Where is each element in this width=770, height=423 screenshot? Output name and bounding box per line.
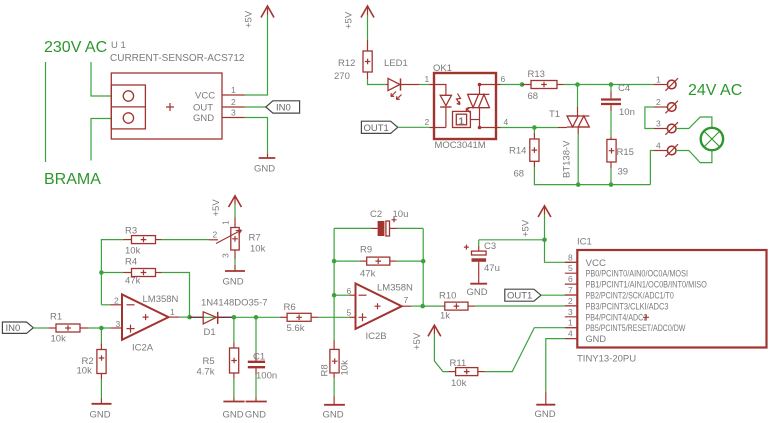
svg-text:47k: 47k (360, 269, 376, 280)
wire feedback to IC2A pin2 (101, 304, 110, 306)
svg-text:1N4148DO35-7: 1N4148DO35-7 (201, 298, 268, 309)
svg-text:3: 3 (656, 119, 661, 129)
op-amp IC2A (114, 294, 179, 354)
svg-text:OUT1: OUT1 (507, 291, 532, 302)
svg-text:1: 1 (568, 318, 573, 328)
terminal pad 1 (654, 75, 678, 91)
net flag OUT1 (bottom) (505, 289, 541, 302)
svg-text:270: 270 (334, 71, 350, 82)
svg-text:GND: GND (90, 410, 111, 421)
svg-text:R13: R13 (528, 69, 545, 80)
ground (R7) (223, 265, 246, 288)
supply +5V symbol (R12) (344, 6, 375, 29)
wire R9 right (397, 260, 423, 262)
optocoupler OK1 (425, 63, 509, 151)
resistor R4 (124, 257, 162, 287)
wire pad4 to lamp (676, 150, 712, 162)
current sensor U1 (111, 73, 222, 139)
resistor R9 (360, 245, 397, 280)
svg-text:R11: R11 (450, 358, 467, 369)
svg-text:R14: R14 (509, 146, 526, 157)
wire 230VAC right to terminal 1 (91, 62, 111, 96)
resistor R13 (522, 69, 564, 102)
svg-text:100n: 100n (256, 371, 277, 382)
resistor R2 (77, 328, 107, 379)
ground (R2) (90, 399, 112, 421)
svg-text:R3: R3 (125, 226, 137, 237)
resistor R1 (48, 312, 88, 345)
svg-text:C1: C1 (253, 352, 265, 363)
svg-text:C3: C3 (484, 241, 496, 252)
lamp (701, 128, 723, 150)
junction (332, 293, 337, 298)
svg-text:2: 2 (231, 97, 236, 107)
U1 pin 3 (222, 117, 245, 119)
wire R13 to pad 1 / top rail (564, 84, 654, 86)
svg-text:1: 1 (425, 74, 430, 84)
resistor R3 (124, 226, 162, 257)
svg-text:GND: GND (254, 164, 275, 175)
wire D1 to C1/R6 (234, 316, 280, 318)
wire C4 to R15 (610, 111, 612, 137)
svg-text:VCC: VCC (195, 91, 215, 102)
ground (C3) (467, 279, 488, 298)
capacitor C4 (601, 83, 635, 118)
wire IN0 to R1 (33, 327, 48, 329)
svg-text:68: 68 (528, 91, 539, 102)
wire OK1 pin6 to R13 (501, 84, 523, 86)
wire R11 to IC1 PB5 (485, 328, 565, 372)
svg-text:4: 4 (656, 141, 661, 151)
svg-text:D1: D1 (204, 327, 216, 338)
junction (576, 182, 581, 187)
svg-text:2: 2 (568, 296, 573, 306)
svg-text:PB3/PCINT3/CLKI/ADC3: PB3/PCINT3/CLKI/ADC3 (586, 301, 669, 312)
svg-text:R6: R6 (284, 302, 296, 313)
wire R15 to bottom rail (610, 168, 612, 185)
svg-text:8: 8 (568, 252, 573, 262)
junction (532, 125, 537, 130)
svg-text:10k: 10k (125, 246, 141, 257)
net flag IN0 (bottom) (2, 322, 33, 334)
svg-text:3: 3 (231, 108, 236, 118)
wire U1 pin2 to IN0 (245, 106, 266, 108)
svg-text:10u: 10u (393, 209, 409, 220)
svg-text:6: 6 (568, 274, 573, 284)
wire output to D1 (190, 316, 234, 318)
wire LED1 to OK1 pin1 (419, 84, 429, 86)
svg-text:PB4/PCINT4/ADC2: PB4/PCINT4/ADC2 (586, 312, 648, 323)
svg-text:IN0: IN0 (6, 323, 21, 334)
svg-text:1k: 1k (440, 310, 450, 321)
svg-text:C2: C2 (370, 209, 382, 220)
resistor R14 (509, 128, 539, 180)
wire R9 left (334, 260, 360, 262)
supply +5V symbol (R11) (412, 325, 441, 350)
svg-text:47u: 47u (484, 263, 500, 274)
terminal pad 3 (654, 119, 678, 135)
svg-text:10k: 10k (77, 366, 93, 377)
resistor R15 (607, 137, 634, 178)
svg-text:4: 4 (504, 117, 509, 127)
wire OUT1 to OK1 pin2 (398, 126, 430, 128)
resistor R5 (197, 317, 239, 378)
wire U1 pin3 to GND (245, 118, 268, 154)
svg-text:IC1: IC1 (577, 237, 592, 248)
wire top rail to triac T1 (577, 85, 579, 108)
svg-text:OUT1: OUT1 (364, 123, 389, 134)
wire 230VAC left to BRAMA (45, 62, 47, 162)
resistor R10 (439, 291, 475, 322)
resistor R6 (280, 302, 318, 334)
microcontroller IC1 (565, 237, 767, 365)
supply +5V symbol (IC1) (521, 206, 551, 237)
IC2B output wire (402, 305, 412, 307)
junction (99, 270, 104, 275)
svg-text:R5: R5 (203, 356, 215, 367)
junction (575, 82, 580, 87)
svg-text:R12: R12 (338, 58, 355, 69)
svg-text:GND: GND (535, 409, 556, 420)
svg-text:24V AC: 24V AC (688, 82, 742, 99)
supply +5V symbol (U1) (244, 6, 275, 28)
junction (421, 259, 426, 264)
svg-text:VCC: VCC (586, 258, 607, 269)
net flag IN0 (top) (266, 101, 300, 114)
svg-text:U 1: U 1 (111, 40, 126, 51)
terminal pad 4 (654, 141, 678, 157)
svg-text:39: 39 (618, 167, 629, 178)
junction (520, 82, 525, 87)
svg-text:5.6k: 5.6k (287, 323, 305, 334)
supply +5V symbol (R7) (211, 196, 241, 217)
svg-text:GND: GND (323, 410, 344, 421)
svg-text:1: 1 (231, 85, 236, 95)
svg-text:6: 6 (501, 74, 506, 84)
wire R2 to GND (100, 379, 102, 399)
op-amp IC2B (347, 283, 414, 343)
svg-text:IC2A: IC2A (132, 343, 154, 354)
wire +5V to R11 (434, 334, 448, 372)
svg-text:PB1/PCINT1/AIN1/OC0B/INT0/MISO: PB1/PCINT1/AIN1/OC0B/INT0/MISO (586, 280, 707, 291)
svg-text:R7: R7 (249, 233, 261, 244)
ground (U1) (254, 153, 275, 174)
svg-text:GND: GND (467, 287, 488, 298)
svg-text:10k: 10k (51, 334, 67, 345)
wire C2 left vertical to pin6/R8 (333, 228, 335, 340)
wire R6 to IC2B pin5 (318, 316, 349, 318)
trimmer R7 (209, 218, 266, 260)
wire IC2B pin6 (334, 294, 349, 296)
svg-text:C4: C4 (618, 83, 630, 94)
svg-text:OK1: OK1 (433, 63, 452, 74)
wire R4 right to output node (162, 273, 190, 317)
svg-text:LM358N: LM358N (143, 294, 179, 305)
wire OK1 pin4 to T1 gate (501, 127, 559, 129)
wire pad3 to lamp (676, 117, 712, 129)
wire terminal 2 to BRAMA (91, 119, 111, 161)
wire R3 left to feedback vertical (101, 240, 123, 305)
svg-text:3: 3 (568, 307, 573, 317)
svg-text:R4: R4 (125, 257, 137, 268)
svg-text:10k: 10k (250, 244, 266, 255)
wire bottom rail up to pad 4 (650, 151, 653, 185)
wire C3 to +5V node (479, 239, 545, 241)
svg-text:5: 5 (347, 308, 352, 318)
ground (R5) (223, 398, 245, 421)
svg-text:PB0/PCINT0/AIN0/OC0A/MOSI: PB0/PCINT0/AIN0/OC0A/MOSI (586, 269, 689, 280)
resistor R12 (334, 40, 372, 82)
wire R1 to IC2A pin3 (88, 327, 110, 329)
wire IC1 GND pin4 (546, 339, 565, 392)
svg-text:GND: GND (245, 410, 266, 421)
svg-text:3: 3 (221, 253, 231, 258)
wire +5V to R12 (367, 15, 369, 40)
svg-text:3: 3 (116, 319, 121, 329)
wire C2 right vertical to output (422, 228, 424, 306)
wire C1 to GND (255, 375, 257, 398)
wire OUT1 to IC1 PB2 (541, 294, 565, 296)
svg-text:+5V: +5V (211, 199, 222, 217)
svg-text:R1: R1 (50, 312, 62, 323)
svg-text:GND: GND (586, 334, 607, 345)
svg-text:4.7k: 4.7k (197, 367, 215, 378)
svg-text:+5V: +5V (521, 219, 532, 237)
svg-text:230V AC: 230V AC (44, 39, 107, 56)
wire R10 to IC1 PB3 (475, 305, 565, 307)
ground (R8) (323, 396, 345, 421)
capacitor C3 (464, 240, 500, 279)
svg-text:2: 2 (425, 117, 430, 127)
svg-text:4: 4 (568, 329, 573, 339)
svg-text:6: 6 (347, 286, 352, 296)
triac T1 (549, 107, 589, 178)
junction (542, 238, 547, 243)
U1 pin 2 (222, 106, 245, 108)
svg-text:+5V: +5V (344, 11, 355, 29)
terminal pad 2 (654, 97, 678, 113)
svg-text:GND: GND (223, 277, 244, 288)
resistor R11 (449, 358, 485, 389)
resistor R8 (320, 340, 351, 379)
capacitor C1 (248, 317, 277, 381)
junction (232, 315, 237, 320)
wire R7 to GND (234, 259, 236, 265)
net flag OUT1 (top) (361, 121, 397, 134)
wire R12 to LED1 (368, 79, 386, 85)
junction (609, 182, 614, 187)
svg-text:2: 2 (213, 230, 218, 240)
svg-text:10k: 10k (451, 378, 467, 389)
U1 pin 1 (222, 94, 245, 96)
svg-text:GND: GND (193, 113, 214, 124)
svg-text:MOC3041M: MOC3041M (435, 140, 486, 151)
wire pad2 to pad3 (645, 107, 654, 129)
svg-text:GND: GND (223, 410, 244, 421)
ground (IC1) (535, 391, 556, 420)
ground (C1) (245, 398, 267, 421)
junction (187, 315, 192, 320)
svg-text:1: 1 (656, 75, 661, 85)
svg-text:1: 1 (221, 220, 231, 225)
svg-text:2: 2 (114, 296, 119, 306)
svg-text:OUT: OUT (193, 103, 213, 114)
svg-text:CURRENT-SENSOR-ACS712: CURRENT-SENSOR-ACS712 (110, 53, 245, 64)
svg-text:5: 5 (568, 263, 573, 273)
junction (420, 304, 425, 309)
svg-text:+5V: +5V (412, 332, 423, 350)
svg-text:2: 2 (656, 97, 661, 107)
wire output to R10 (423, 305, 443, 307)
wire T1 to bottom rail (577, 134, 579, 185)
svg-text:47k: 47k (125, 276, 141, 287)
wire R8 to GND (333, 378, 335, 396)
svg-text:1: 1 (459, 117, 465, 128)
IC2A output wire (169, 316, 180, 318)
wire +5V to IC1 VCC (545, 215, 565, 263)
svg-text:TINY13-20PU: TINY13-20PU (577, 354, 636, 365)
svg-text:BT138-V: BT138-V (562, 140, 573, 178)
svg-text:R9: R9 (360, 245, 372, 256)
pin3 stub (110, 327, 122, 329)
svg-text:BRAMA: BRAMA (44, 171, 101, 188)
junction (609, 82, 614, 87)
junction (254, 315, 259, 320)
junction (99, 326, 104, 331)
diode D1 1N4148DO35-7 (190, 298, 268, 339)
svg-text:T1: T1 (549, 109, 560, 120)
svg-text:PB2/PCINT2/SCK/ADC1/T0: PB2/PCINT2/SCK/ADC1/T0 (586, 291, 674, 302)
svg-text:R8: R8 (320, 364, 331, 376)
wire R5 to GND (233, 379, 235, 398)
svg-text:7: 7 (404, 295, 409, 305)
LED D1 LED1 (384, 58, 419, 100)
svg-text:10k: 10k (340, 360, 351, 376)
svg-text:R10: R10 (439, 291, 456, 302)
svg-text:LED1: LED1 (384, 58, 408, 69)
wire U1 pin1 to +5V (245, 15, 268, 95)
wire R4 left (101, 272, 123, 274)
capacitor C2 (334, 209, 423, 236)
svg-text:PB5/PCINT5/RESET/ADC0/DW: PB5/PCINT5/RESET/ADC0/DW (586, 323, 686, 334)
svg-text:1: 1 (170, 307, 175, 317)
svg-text:LM358N: LM358N (377, 283, 413, 294)
svg-text:IC2B: IC2B (366, 331, 387, 342)
wire R3 right to R7 (162, 239, 210, 241)
junction (332, 259, 337, 264)
svg-text:+5V: +5V (244, 10, 255, 28)
wire R14 to bottom rail (534, 167, 650, 185)
svg-text:10n: 10n (619, 107, 635, 118)
svg-text:68: 68 (514, 169, 525, 180)
svg-text:IN0: IN0 (276, 103, 291, 114)
wire +5V to R7 (234, 205, 236, 218)
svg-text:R15: R15 (617, 147, 634, 158)
svg-text:7: 7 (568, 285, 573, 295)
